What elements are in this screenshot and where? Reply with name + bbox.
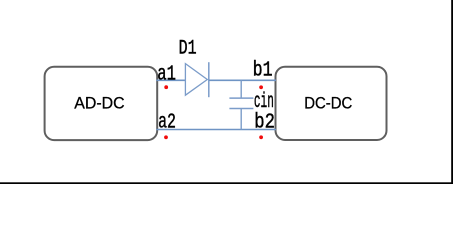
- wire b1 segment (diode cathode to right box): [209, 79, 276, 81]
- diode D1: [185, 62, 208, 97]
- capacitor cin: [229, 80, 253, 129]
- svg-text:AD-DC: AD-DC: [74, 94, 124, 112]
- node dot b1: [259, 85, 263, 89]
- svg-text:D1: D1: [179, 38, 197, 61]
- node dot b2: [259, 135, 263, 139]
- node dot a1: [164, 85, 168, 89]
- svg-text:a2: a2: [158, 112, 176, 135]
- svg-text:a1: a1: [157, 64, 176, 87]
- svg-text:DC-DC: DC-DC: [304, 94, 352, 112]
- wire a2-b2 segment (bottom wire): [156, 129, 276, 131]
- frame bottom border: [0, 182, 453, 184]
- wire a1 segment (left box to diode anode): [156, 79, 185, 81]
- block AD-DC: [45, 67, 158, 140]
- frame right border: [451, 0, 453, 184]
- svg-text:b2: b2: [254, 112, 275, 135]
- node dot a2: [164, 135, 168, 139]
- block DC-DC: [276, 67, 387, 140]
- svg-text:cin: cin: [254, 91, 274, 114]
- svg-text:b1: b1: [253, 59, 273, 82]
